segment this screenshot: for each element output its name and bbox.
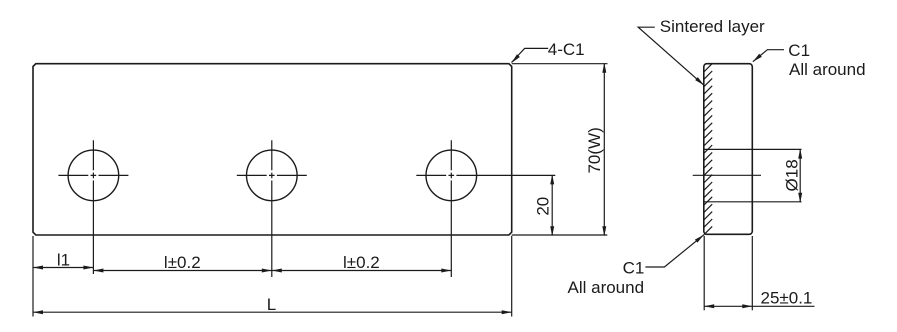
svg-text:All around: All around (568, 278, 645, 297)
arrow l±0.2b left (272, 269, 282, 273)
svg-text:Ø18: Ø18 (782, 159, 801, 191)
arrow Ø18 top (798, 149, 802, 159)
svg-text:4-C1: 4-C1 (548, 40, 585, 59)
side view right extension line below (751, 236, 753, 310)
arrow 70 bottom (602, 226, 606, 236)
arrow L right (502, 310, 512, 314)
svg-text:C1: C1 (623, 259, 645, 278)
svg-text:L: L (267, 295, 276, 314)
hole upper line (side view) (704, 148, 802, 150)
arrow 25 right (742, 304, 752, 308)
dimension 70(W) line (603, 64, 605, 235)
dimension l±0.2 line (holes 2-3) (272, 270, 452, 272)
hole 1 vertical centerline (92, 140, 94, 274)
arrow 20 bottom (550, 226, 554, 236)
svg-text:l±0.2: l±0.2 (343, 253, 380, 272)
svg-text:C1: C1 (788, 41, 810, 60)
right extension line below plate (511, 236, 513, 317)
leader for 4-C1 (512, 48, 549, 62)
arrow sintered leader (695, 77, 705, 87)
dimension L line (33, 311, 512, 313)
svg-text:20: 20 (533, 197, 552, 216)
dimension Ø18 line (799, 149, 801, 201)
svg-text:l1: l1 (57, 250, 70, 269)
hole 2 horizontal centerline (237, 174, 307, 176)
arrowheads (33, 54, 802, 314)
hole 2 circle (246, 150, 297, 201)
hole center line (side view) (693, 174, 761, 176)
hole 3 vertical centerline (450, 140, 452, 277)
arrow l±0.2a left (93, 269, 103, 273)
svg-text:l±0.2: l±0.2 (164, 253, 201, 272)
arrow C1 bottom leader (695, 233, 705, 242)
plate outline (front view) (33, 64, 512, 235)
arrow 20 top (550, 174, 554, 184)
side view left extension line below (703, 236, 705, 310)
arrow l±0.2a right (262, 269, 272, 273)
arrow l1 left (33, 266, 43, 270)
hole 1 circle (68, 150, 119, 201)
left extension line below plate (32, 236, 34, 317)
arrow l1 right (83, 266, 93, 270)
dimension 25±0.1 line (704, 305, 814, 307)
hole 3 circle (426, 150, 477, 201)
bottom extension line for 20 and 70(W) (512, 234, 608, 236)
side view outline (704, 64, 753, 235)
hole 2 vertical centerline (271, 140, 273, 277)
leader for C1 all around (bottom left) (645, 235, 704, 267)
dimension l1 line (33, 267, 93, 269)
arrow L left (33, 310, 43, 314)
arrow 25 left (704, 304, 714, 308)
svg-text:70(W): 70(W) (585, 127, 604, 173)
dimension 20 line (551, 175, 553, 235)
sintered layer hatch ticks (704, 64, 712, 235)
hole 1 horizontal centerline (58, 174, 128, 176)
leader for Sintered layer (638, 27, 704, 85)
top extension line for 70(W) (512, 63, 608, 65)
dimension l±0.2 line (holes 1-2) (93, 270, 271, 272)
arrow Ø18 bottom (798, 193, 802, 203)
arrow 4-C1 leader (510, 54, 520, 64)
leader for C1 all around (top right) (753, 50, 784, 62)
arrow l±0.2b right (441, 269, 451, 273)
svg-text:All around: All around (789, 60, 866, 79)
hole 3 horizontal centerline, extends right as extension line for 20 dim (416, 174, 555, 176)
hole lower line (side view) (704, 201, 802, 203)
svg-text:25±0.1: 25±0.1 (761, 289, 813, 308)
arrow 70 top (602, 63, 606, 73)
svg-text:Sintered layer: Sintered layer (660, 17, 765, 36)
arrow C1 top leader (752, 54, 762, 63)
